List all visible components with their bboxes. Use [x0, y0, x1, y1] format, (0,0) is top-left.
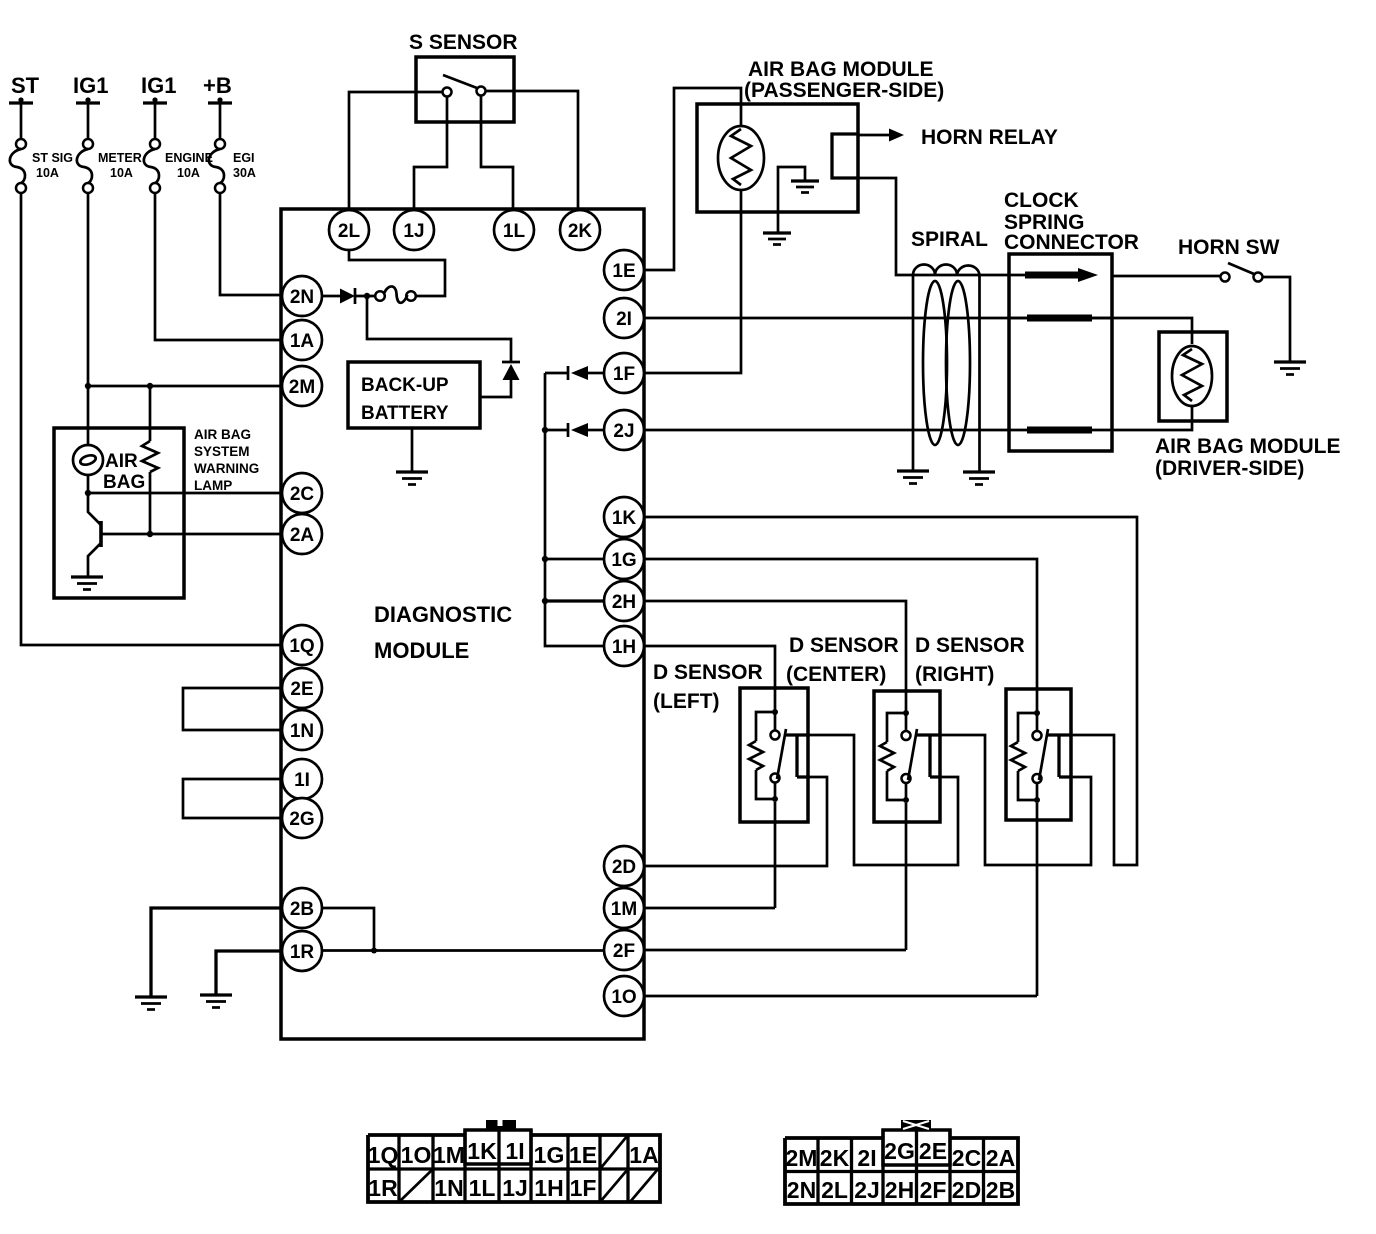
connector 2 row divider	[785, 1170, 1018, 1173]
wire 2H to center sensor	[644, 601, 906, 713]
clock spring horn contact bar with arrow	[1009, 274, 1080, 277]
svg-text:1R: 1R	[368, 1175, 398, 1201]
terminal 2D	[604, 846, 644, 886]
wire diode D1 to fuse F5	[355, 295, 375, 298]
wire junction to back-up diode D2	[367, 296, 511, 362]
wire 2I to driver squib	[644, 318, 1192, 344]
svg-text:1E: 1E	[612, 261, 635, 282]
svg-text:WARNING: WARNING	[194, 461, 259, 476]
wire ST tap to fuse	[20, 103, 23, 139]
svg-text:ST: ST	[11, 73, 40, 98]
spiral left lead	[912, 275, 915, 471]
svg-text:2A: 2A	[290, 525, 315, 546]
D sensor left box	[740, 688, 808, 822]
connector 1 blank cell diagonal row2c	[630, 1169, 658, 1202]
fuse F5 (internal)	[375, 291, 385, 301]
wire horn relay notch to spiral	[858, 178, 1009, 275]
center sensor bottom contact	[902, 774, 911, 783]
svg-text:(DRIVER-SIDE): (DRIVER-SIDE)	[1155, 457, 1304, 480]
left sensor bottom node	[772, 796, 778, 802]
svg-text:ENGINE: ENGINE	[165, 151, 213, 165]
wire battery to ground	[411, 428, 414, 472]
right sensor lever	[1039, 729, 1048, 780]
svg-text:1I: 1I	[505, 1138, 524, 1164]
svg-text:10A: 10A	[177, 166, 200, 180]
right sensor resistor	[1018, 713, 1037, 800]
svg-text:30A: 30A	[233, 166, 256, 180]
svg-text:2H: 2H	[612, 592, 636, 613]
wire right sensor to 1O	[644, 803, 1037, 996]
svg-text:DIAGNOSTIC: DIAGNOSTIC	[374, 602, 512, 627]
terminal 1R	[282, 931, 322, 971]
wire METER fuse down to 2M line	[87, 193, 90, 386]
svg-text:1O: 1O	[611, 987, 636, 1008]
svg-text:METER: METER	[98, 151, 142, 165]
left sensor top contact	[774, 712, 777, 731]
ground (warning lamp)	[71, 575, 103, 578]
svg-text:2N: 2N	[290, 287, 314, 308]
svg-text:1G: 1G	[534, 1142, 565, 1168]
fuse EGI 30A	[215, 139, 225, 149]
junction node after D1	[364, 293, 370, 299]
terminal 2M	[282, 366, 322, 406]
connector 1 blank cell diagonal row2a	[399, 1169, 433, 1202]
svg-text:1F: 1F	[613, 364, 635, 385]
transistor Q1 base wire to 2A	[101, 533, 282, 536]
ground (below passenger module)	[763, 231, 791, 234]
horn switch lever	[1228, 263, 1254, 274]
svg-text:LAMP: LAMP	[194, 478, 232, 493]
center sensor lever	[908, 729, 917, 780]
svg-text:1J: 1J	[403, 221, 424, 242]
svg-text:2M: 2M	[289, 377, 315, 398]
wire 1R to ground	[216, 951, 282, 995]
svg-text:2B: 2B	[986, 1177, 1015, 1203]
svg-text:CLOCK: CLOCK	[1004, 189, 1079, 212]
terminal 1H	[604, 626, 644, 666]
terminal 2B	[282, 888, 322, 928]
wire center tab to right tab (chain)	[930, 735, 1091, 865]
svg-text:1M: 1M	[433, 1142, 465, 1168]
wire diode D3 to 1F	[588, 372, 604, 375]
svg-text:1G: 1G	[611, 550, 636, 571]
svg-text:D SENSOR: D SENSOR	[915, 634, 1025, 657]
svg-text:2K: 2K	[568, 221, 593, 242]
wire bus stub to 1G	[546, 558, 604, 561]
internal bus wire 1F/2J/1G/2H/1H	[545, 373, 604, 646]
terminal 1M	[604, 888, 644, 928]
wire bus stub to 2H	[546, 599, 604, 602]
terminal 1E	[604, 250, 644, 290]
svg-text:2C: 2C	[290, 484, 315, 505]
wire S sensor right contact to 1L	[481, 96, 513, 211]
svg-text:2N: 2N	[787, 1177, 816, 1203]
right sensor top node	[1034, 710, 1040, 716]
svg-text:2D: 2D	[612, 857, 636, 878]
center sensor top contact	[905, 713, 908, 731]
ground (1R)	[200, 993, 232, 996]
svg-text:(CENTER): (CENTER)	[786, 663, 886, 686]
svg-text:2D: 2D	[952, 1177, 981, 1203]
terminal 2A	[282, 514, 322, 554]
connector 1 row divider	[368, 1167, 660, 1170]
wire 2B to ground	[151, 908, 282, 997]
junction on bus at 1G	[542, 556, 548, 562]
terminal 2L	[329, 210, 369, 250]
power tap IG1 engine	[143, 101, 167, 104]
connector 1 column lines	[399, 1130, 628, 1202]
wire right tab to 1K (chain)	[644, 517, 1137, 865]
svg-text:2F: 2F	[613, 941, 635, 962]
horn switch contacts	[1221, 273, 1230, 282]
svg-text:1R: 1R	[290, 942, 315, 963]
right sensor bottom node	[1034, 797, 1040, 803]
wire driver squib to 2J	[644, 406, 1192, 430]
wire horn switch to ground	[1263, 277, 1291, 362]
warning lamp L1	[73, 445, 103, 475]
D sensor right box	[1006, 689, 1071, 820]
warning lamp box	[54, 428, 184, 598]
svg-text:HORN RELAY: HORN RELAY	[921, 126, 1058, 149]
ground (spiral right)	[963, 470, 995, 473]
center sensor top node	[903, 710, 909, 716]
wire diode D2 to battery box	[480, 380, 511, 397]
wire 1E to passenger squib	[644, 88, 741, 270]
terminal 1Q	[282, 625, 322, 665]
wire 2D to left sensor tab	[644, 777, 827, 866]
svg-text:1O: 1O	[401, 1142, 432, 1168]
svg-text:2F: 2F	[920, 1177, 947, 1203]
svg-text:(PASSENGER-SIDE): (PASSENGER-SIDE)	[744, 79, 944, 102]
svg-text:D SENSOR: D SENSOR	[653, 661, 763, 684]
power tap IG1 meter	[76, 101, 100, 104]
terminal 2I	[604, 298, 644, 338]
svg-text:1L: 1L	[469, 1175, 496, 1201]
left sensor resistor	[756, 712, 775, 799]
ground (back-up battery)	[396, 470, 428, 473]
svg-text:1L: 1L	[503, 221, 526, 242]
back-up battery box	[348, 362, 480, 428]
terminal 1I	[282, 759, 322, 799]
wire bus to diode D3	[545, 372, 568, 375]
terminal 2G	[282, 798, 322, 838]
internal wire 1R to 2F	[322, 949, 604, 952]
svg-text:S SENSOR: S SENSOR	[409, 31, 518, 54]
transistor Q1 emitter	[88, 543, 101, 577]
fuse METER 10A	[83, 139, 93, 149]
svg-text:2L: 2L	[821, 1177, 848, 1203]
connector 1 blank cell diagonal row1	[600, 1135, 628, 1169]
clock spring box	[1009, 254, 1112, 451]
svg-text:1A: 1A	[629, 1142, 658, 1168]
svg-text:1F: 1F	[570, 1175, 597, 1201]
wire S sensor left contact to 1J	[414, 97, 447, 211]
junction lamp/collector	[85, 490, 91, 496]
driver module box	[1159, 332, 1227, 421]
connector 1 outer shell	[368, 1135, 660, 1202]
svg-text:1A: 1A	[290, 331, 315, 352]
spiral coil loops	[923, 281, 947, 445]
wire ST fuse to terminal 1Q	[21, 193, 282, 645]
svg-text:(LEFT): (LEFT)	[653, 690, 719, 713]
connector 1 blank cell diagonal row2b	[600, 1169, 628, 1202]
transistor Q1 bar	[99, 521, 103, 547]
terminal 2K	[560, 210, 600, 250]
terminal 1L	[494, 210, 534, 250]
svg-text:AIR BAG MODULE: AIR BAG MODULE	[748, 58, 934, 81]
svg-text:10A: 10A	[110, 166, 133, 180]
S sensor box	[416, 57, 514, 122]
wire lamp feed	[87, 386, 90, 445]
svg-text:2E: 2E	[919, 1138, 947, 1164]
svg-text:2C: 2C	[952, 1145, 981, 1171]
svg-text:IG1: IG1	[141, 73, 176, 98]
svg-text:1Q: 1Q	[368, 1142, 399, 1168]
right sensor output tab	[1048, 735, 1071, 777]
svg-text:AIR BAG: AIR BAG	[194, 427, 251, 442]
terminal 1N	[282, 710, 322, 750]
svg-text:2A: 2A	[986, 1145, 1015, 1171]
wire fuse F5 to 2L	[349, 250, 445, 296]
svg-text:BAG: BAG	[103, 472, 145, 493]
spiral coil arches	[913, 265, 980, 276]
ground (horn switch)	[1274, 360, 1306, 363]
svg-text:AIR BAG MODULE: AIR BAG MODULE	[1155, 435, 1341, 458]
power tap +B	[208, 101, 232, 104]
connector 2 latch tab	[901, 1120, 931, 1130]
diode D4 (2J)	[567, 423, 570, 437]
wire clock spring to horn switch	[1112, 275, 1220, 278]
terminal 2H	[604, 581, 644, 621]
svg-text:2G: 2G	[289, 809, 314, 830]
svg-text:SYSTEM: SYSTEM	[194, 444, 250, 459]
connector 2 column lines	[818, 1130, 984, 1204]
diode D1 (after 2N)	[340, 289, 355, 304]
resistor R1 (lamp shunt)	[149, 386, 152, 534]
left sensor lever	[777, 729, 786, 779]
clock spring 2I contact bar	[1009, 317, 1112, 320]
fuse ST SIG 10A	[16, 139, 26, 149]
connector 2 raised cells 2G/2E	[883, 1130, 950, 1165]
svg-text:1M: 1M	[611, 899, 637, 920]
svg-text:(RIGHT): (RIGHT)	[915, 663, 994, 686]
svg-text:2M: 2M	[786, 1145, 818, 1171]
ground (spiral left)	[897, 469, 929, 472]
svg-text:1N: 1N	[434, 1175, 463, 1201]
junction on bus at 2H	[542, 598, 548, 604]
svg-text:2E: 2E	[290, 679, 313, 700]
svg-text:1Q: 1Q	[289, 636, 314, 657]
wire 2M line	[88, 385, 282, 388]
left sensor bottom contact	[771, 774, 780, 783]
wire left sensor to 1M	[644, 802, 775, 908]
terminal 2C	[282, 473, 322, 513]
passenger module box	[697, 104, 858, 212]
wire EGI fuse to terminal 2N	[220, 193, 282, 295]
connector 1 raised cells 1K/1I	[465, 1130, 531, 1164]
svg-text:1J: 1J	[502, 1175, 528, 1201]
svg-text:D SENSOR: D SENSOR	[789, 634, 899, 657]
junction resistor top	[147, 383, 153, 389]
wire 1H to left sensor	[644, 646, 775, 712]
wire bus to diode D4	[545, 429, 568, 432]
svg-text:2G: 2G	[884, 1138, 915, 1164]
diode D2 (back-up battery)	[502, 361, 520, 364]
diagnostic module box	[281, 209, 644, 1039]
left sensor top node	[772, 709, 778, 715]
S sensor switch lever	[443, 75, 477, 88]
svg-text:ST SIG: ST SIG	[32, 151, 73, 165]
wire 2L to S sensor left contact	[349, 92, 443, 210]
connector 1 latch tab	[486, 1120, 516, 1130]
squib (passenger)	[718, 126, 764, 190]
svg-text:1H: 1H	[534, 1175, 563, 1201]
wire lamp to 2C	[88, 475, 282, 493]
center sensor bottom node	[903, 797, 909, 803]
junction 2B link	[371, 948, 377, 954]
terminal 2E	[282, 668, 322, 708]
D sensor center box	[874, 691, 940, 822]
svg-text:2B: 2B	[290, 899, 314, 920]
svg-text:MODULE: MODULE	[374, 638, 469, 663]
terminal 1O	[604, 976, 644, 1016]
jumper 1I to 2G	[183, 779, 282, 818]
ground (2B)	[135, 995, 167, 998]
diode D3 (1F)	[567, 366, 570, 380]
svg-text:SPIRAL: SPIRAL	[911, 228, 988, 251]
svg-text:AIR: AIR	[105, 451, 138, 472]
wire +B tap to fuse	[219, 103, 222, 139]
center sensor resistor	[887, 713, 906, 800]
wire center sensor to 2F	[644, 803, 906, 950]
power tap ST	[9, 101, 33, 104]
spiral right lead	[978, 275, 981, 472]
svg-text:BATTERY: BATTERY	[361, 403, 449, 424]
center sensor output tab	[917, 735, 940, 777]
svg-text:CONNECTOR: CONNECTOR	[1004, 231, 1139, 254]
svg-text:IG1: IG1	[73, 73, 108, 98]
svg-text:2H: 2H	[885, 1177, 914, 1203]
svg-text:+B: +B	[203, 73, 232, 98]
wire 1G to right sensor	[644, 559, 1037, 713]
svg-text:2J: 2J	[613, 421, 634, 442]
jumper 2E to 1N	[183, 688, 282, 730]
fuse ENGINE 10A	[150, 139, 160, 149]
svg-text:10A: 10A	[36, 166, 59, 180]
svg-text:1N: 1N	[290, 721, 314, 742]
wire IG1 tap to fuse	[87, 103, 90, 139]
junction resistor bottom on 2A line	[147, 531, 153, 537]
left sensor output tab	[786, 735, 808, 777]
internal wire 2B to 1R-2F line	[322, 908, 374, 951]
squib (driver)	[1172, 346, 1212, 406]
junction meter/lamp	[85, 383, 91, 389]
horn relay arrow	[858, 134, 890, 137]
terminal 1J	[394, 210, 434, 250]
svg-text:1H: 1H	[612, 637, 636, 658]
svg-text:HORN SW: HORN SW	[1178, 236, 1280, 259]
ground (inside passenger module)	[791, 179, 819, 182]
svg-text:1K: 1K	[612, 508, 637, 529]
right sensor top contact	[1036, 713, 1039, 731]
terminal 1A	[282, 320, 322, 360]
wire 2N to diode D1	[322, 295, 340, 298]
svg-text:1I: 1I	[294, 770, 310, 791]
wire IG1 tap to fuse	[154, 103, 157, 139]
terminal 1F	[604, 353, 644, 393]
svg-text:EGI: EGI	[233, 151, 255, 165]
terminal 1G	[604, 539, 644, 579]
right sensor bottom contact	[1033, 774, 1042, 783]
wire ENGINE fuse to terminal 1A	[155, 193, 282, 340]
wire S sensor right contact to 2K	[486, 91, 579, 210]
svg-text:2L: 2L	[338, 221, 361, 242]
passenger module case ground wire	[778, 167, 805, 233]
wire diode D4 to 2J	[588, 429, 604, 432]
connector 2 outer shell	[785, 1138, 1018, 1204]
transistor Q1 collector	[88, 496, 101, 525]
wire passenger squib to 1F	[644, 190, 741, 373]
S sensor switch contacts	[443, 88, 452, 97]
svg-text:BACK-UP: BACK-UP	[361, 375, 449, 396]
svg-text:2I: 2I	[857, 1145, 876, 1171]
wire left tab to center tab (chain)	[797, 735, 958, 865]
terminal 1K	[604, 497, 644, 537]
horn relay connector notch	[832, 134, 858, 178]
clock spring 2J contact bar	[1027, 427, 1092, 434]
svg-text:2K: 2K	[820, 1145, 850, 1171]
junction on bus at 2J	[542, 427, 548, 433]
svg-text:1E: 1E	[569, 1142, 597, 1168]
svg-text:2I: 2I	[616, 309, 632, 330]
terminal 2J	[604, 410, 644, 450]
svg-text:1K: 1K	[467, 1138, 497, 1164]
terminal 2F	[604, 930, 644, 970]
svg-text:2J: 2J	[854, 1177, 880, 1203]
terminal 2N	[282, 276, 322, 316]
